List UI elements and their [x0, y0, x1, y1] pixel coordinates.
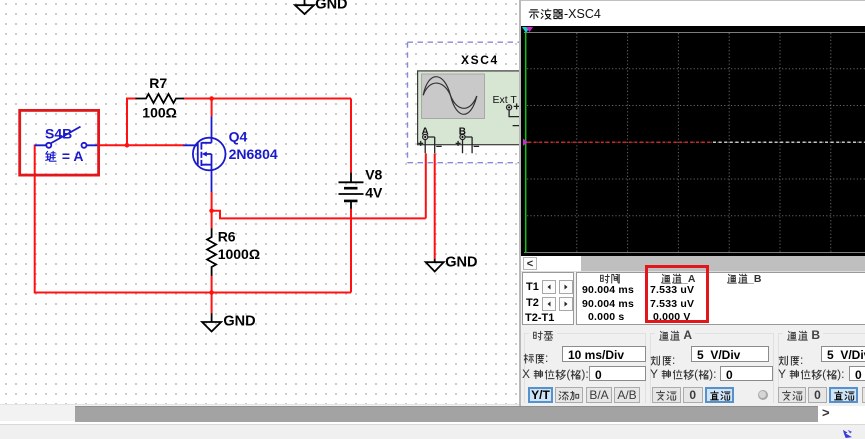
- svg-text:B: B: [459, 127, 466, 138]
- svg-text:Ext T: Ext T: [493, 94, 518, 106]
- svg-text:S4B: S4B: [45, 125, 72, 141]
- svg-text:100Ω: 100Ω: [142, 104, 177, 120]
- svg-text:GND: GND: [223, 314, 255, 330]
- svg-text:A: A: [422, 127, 429, 138]
- svg-text:XSC4: XSC4: [461, 53, 499, 67]
- svg-text:GND: GND: [315, 0, 347, 13]
- svg-text:R6: R6: [218, 229, 236, 245]
- svg-text:4V: 4V: [365, 184, 383, 200]
- svg-text:R7: R7: [149, 75, 167, 91]
- svg-text:Q4: Q4: [229, 129, 248, 145]
- svg-text:2N6804: 2N6804: [229, 146, 278, 162]
- svg-text:GND: GND: [445, 254, 477, 270]
- svg-text:= A: = A: [58, 148, 84, 164]
- svg-text:V8: V8: [365, 166, 382, 182]
- svg-text:1000Ω: 1000Ω: [218, 246, 260, 262]
